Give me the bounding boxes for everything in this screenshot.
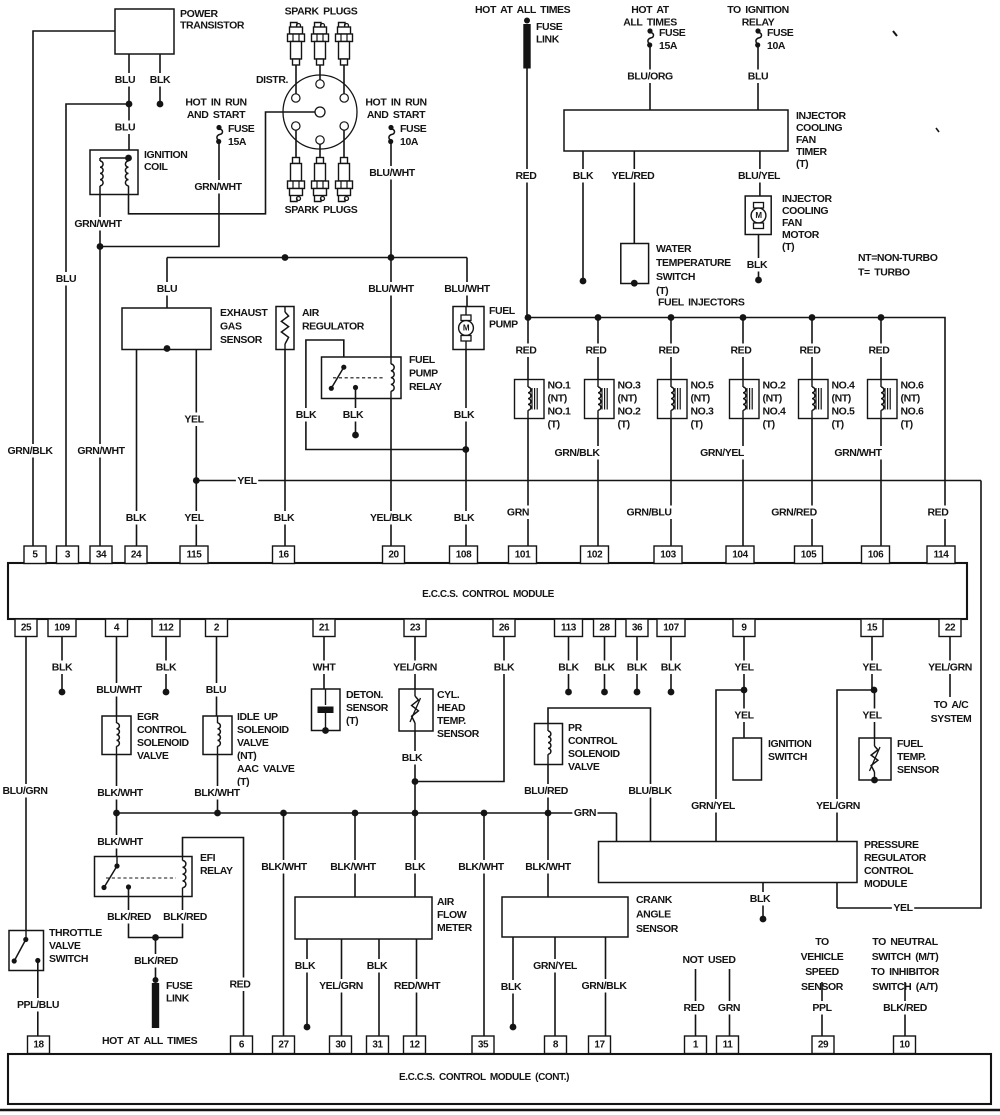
- svg-text:(NT): (NT): [832, 393, 851, 405]
- wire YEL branch to pressure regulator module (GRN/YEL): [716, 690, 744, 842]
- svg-text:RED: RED: [731, 345, 753, 357]
- svg-text:YEL: YEL: [862, 662, 882, 674]
- relay switch contact 2: [329, 386, 334, 391]
- value label YEL/GRN: [318, 979, 365, 993]
- svg-text:SPEED: SPEED: [805, 966, 839, 978]
- fuel pump relay box: [322, 357, 402, 399]
- svg-text:114: 114: [934, 549, 950, 560]
- value label WHT: [311, 661, 337, 675]
- value label GRN/WHT: [833, 446, 883, 460]
- junction dot bus: [481, 810, 488, 817]
- svg-text:11: 11: [723, 1039, 734, 1050]
- value label BLK: [342, 408, 365, 422]
- svg-text:BLU/WHT: BLU/WHT: [368, 283, 415, 295]
- svg-text:TO NEUTRAL: TO NEUTRAL: [872, 936, 938, 948]
- ignition coil box: [90, 150, 138, 195]
- value label PPL: [811, 1001, 833, 1015]
- svg-text:SWITCH (M/T): SWITCH (M/T): [872, 951, 939, 963]
- wire injector 3 feed (RED): [670, 318, 672, 380]
- svg-text:BLK: BLK: [52, 662, 73, 674]
- value label BLK: [660, 661, 683, 675]
- pin 35: [472, 1036, 494, 1054]
- EFI relay linkage dashed: [106, 877, 176, 879]
- ground dot: [668, 689, 675, 696]
- value label YEL/RED: [610, 169, 656, 183]
- fuel injector NO.6/NO.6: [868, 380, 898, 419]
- svg-text:PUMP: PUMP: [409, 368, 438, 380]
- wire module BLK ground: [762, 883, 764, 918]
- svg-text:SWITCH: SWITCH: [768, 751, 807, 763]
- value label GRN/YEL: [690, 799, 737, 813]
- junction dot bus: [412, 810, 419, 817]
- value label RED: [584, 344, 608, 358]
- svg-text:REGULATOR: REGULATOR: [302, 321, 365, 333]
- wire coil primary to pin 34 (GRN/WHT): [99, 195, 101, 547]
- wire to pin 10 (BLK/RED): [904, 982, 906, 1036]
- svg-text:AND START: AND START: [367, 109, 426, 121]
- svg-text:SPARK PLUGS: SPARK PLUGS: [285, 6, 358, 18]
- throttle switch arm: [14, 940, 26, 962]
- svg-text:BLK/WHT: BLK/WHT: [97, 836, 144, 848]
- distributor center post: [315, 107, 325, 117]
- ground dot fan motor: [755, 277, 762, 284]
- pin 26: [493, 619, 515, 637]
- svg-text:FUSE: FUSE: [536, 21, 563, 33]
- svg-text:(T): (T): [548, 419, 560, 431]
- pin 6: [231, 1036, 253, 1054]
- air regulator resistor: [284, 307, 286, 313]
- wire relay switch to BLK junction: [306, 340, 466, 450]
- value label BLK/RED: [133, 954, 179, 968]
- pin 11: [717, 1036, 739, 1054]
- svg-text:102: 102: [587, 549, 603, 560]
- svg-text:FUEL: FUEL: [897, 738, 924, 750]
- svg-text:E.C.C.S. CONTROL MODULE: E.C.C.S. CONTROL MODULE: [422, 589, 555, 600]
- svg-text:36: 36: [632, 622, 643, 633]
- spark plug bottom 2: [317, 158, 324, 164]
- svg-text:GAS: GAS: [220, 321, 242, 333]
- value label YEL: [861, 709, 883, 723]
- pin 25: [15, 619, 37, 637]
- svg-text:NT=NON-TURBO: NT=NON-TURBO: [858, 252, 938, 264]
- pin 109: [48, 619, 76, 637]
- svg-text:YEL: YEL: [184, 512, 204, 524]
- svg-text:NO.6: NO.6: [901, 406, 924, 418]
- value label BLK: [294, 959, 317, 973]
- svg-text:RED: RED: [516, 170, 538, 182]
- injector cooling fan timer box: [564, 110, 788, 151]
- value label RED: [798, 344, 822, 358]
- scan speck 2: [936, 128, 939, 132]
- value label BLK: [125, 511, 148, 525]
- svg-text:27: 27: [278, 1039, 289, 1050]
- EFI relay armature contact: [126, 884, 131, 889]
- svg-text:HOT AT ALL TIMES: HOT AT ALL TIMES: [102, 1035, 198, 1047]
- fuse link (bottom): [153, 977, 159, 983]
- E.C.C.S. control module box: [8, 563, 967, 619]
- svg-text:2: 2: [214, 622, 220, 633]
- svg-text:TEMPERATURE: TEMPERATURE: [656, 257, 731, 269]
- svg-text:NO.2: NO.2: [618, 406, 641, 418]
- wire injector 1 to module: [527, 419, 529, 547]
- junction dot bus: [280, 810, 287, 817]
- wire injector 4 feed (RED): [742, 318, 744, 380]
- pin 115: [180, 546, 208, 564]
- svg-text:RED: RED: [230, 979, 252, 991]
- pin 15: [861, 619, 883, 637]
- svg-text:FUSE: FUSE: [767, 27, 794, 39]
- pin 36: [626, 619, 648, 637]
- svg-text:TO A/C: TO A/C: [934, 699, 969, 711]
- svg-text:TO IGNITION: TO IGNITION: [727, 4, 789, 16]
- svg-text:NO.2: NO.2: [763, 380, 786, 392]
- value label GRN/WHT: [73, 217, 123, 231]
- svg-text:FAN: FAN: [782, 217, 802, 229]
- value label BLU/WHT: [367, 282, 415, 296]
- relay switch contact: [341, 365, 346, 370]
- svg-text:WATER: WATER: [656, 243, 692, 255]
- wire throttle switch to pin 18 (PPL/BLU): [37, 961, 39, 1037]
- relay switch arm: [331, 367, 344, 388]
- svg-text:30: 30: [335, 1039, 346, 1050]
- wire crank sensor to pin 8 (GRN/YEL): [554, 937, 556, 1036]
- EFI relay box: [95, 857, 193, 897]
- pin 24: [125, 546, 147, 564]
- svg-text:(T): (T): [782, 241, 794, 253]
- junction dot injector rail 1: [525, 314, 532, 321]
- junction dot bus: [545, 810, 552, 817]
- svg-text:(NT): (NT): [618, 393, 637, 405]
- svg-text:20: 20: [388, 549, 399, 560]
- svg-text:EFI: EFI: [200, 852, 216, 864]
- fuel injector NO.4/NO.5: [799, 380, 829, 419]
- fan motor symbol: [754, 203, 764, 209]
- value label RED: [514, 344, 538, 358]
- wire power transistor BLK output: [159, 54, 161, 104]
- value label YEL: [892, 901, 914, 915]
- svg-text:BLU: BLU: [748, 71, 768, 83]
- wire injector 6 to module: [880, 419, 882, 547]
- svg-text:BLU: BLU: [115, 122, 135, 134]
- value label BLU: [156, 282, 179, 296]
- svg-text:TEMP.: TEMP.: [437, 715, 466, 727]
- pin 23: [404, 619, 426, 637]
- svg-text:BLU: BLU: [157, 283, 177, 295]
- svg-text:BLU/WHT: BLU/WHT: [96, 684, 143, 696]
- value label YEL: [183, 511, 205, 525]
- svg-text:GRN: GRN: [718, 1002, 740, 1014]
- svg-text:AIR: AIR: [437, 896, 455, 908]
- value label BLK: [453, 408, 476, 422]
- svg-text:SOLENOID: SOLENOID: [137, 737, 189, 749]
- wire crank sensor BLK ground: [512, 937, 514, 1025]
- pin 5: [24, 546, 46, 564]
- wire bus to air flow meter (BLK/WHT): [354, 813, 356, 897]
- wire pin ground (BLK): [636, 637, 638, 690]
- svg-text:BLK: BLK: [501, 981, 522, 993]
- svg-text:109: 109: [54, 622, 70, 633]
- spark plug top 3: [339, 23, 346, 29]
- ground dot: [634, 689, 641, 696]
- svg-text:YEL: YEL: [893, 902, 913, 914]
- fuel temp thermistor: [874, 738, 876, 746]
- svg-text:10A: 10A: [767, 40, 786, 52]
- svg-text:INJECTOR: INJECTOR: [782, 193, 833, 205]
- junction dot injector rail 3: [668, 314, 675, 321]
- pin 112: [152, 619, 180, 637]
- svg-text:BLK: BLK: [156, 662, 177, 674]
- svg-text:BLK: BLK: [750, 893, 771, 905]
- svg-text:(T): (T): [796, 158, 808, 170]
- svg-text:TO: TO: [815, 936, 829, 948]
- svg-text:COOLING: COOLING: [796, 122, 842, 134]
- wire injector 2 feed (RED): [597, 318, 599, 380]
- svg-text:FUEL: FUEL: [409, 354, 436, 366]
- value label GRN/BLU: [625, 506, 673, 520]
- wire relay coil to pin 20 (YEL/BLK): [390, 399, 392, 547]
- pin 1: [685, 1036, 707, 1054]
- svg-text:RELAY: RELAY: [200, 865, 233, 877]
- wire injector 2 to module: [597, 419, 599, 547]
- value label BLK: [500, 980, 523, 994]
- value label GRN: [716, 1001, 741, 1015]
- svg-text:BLK: BLK: [454, 409, 475, 421]
- junction dot coil top: [125, 155, 132, 162]
- wire pin 2 to idle up valve (BLU): [216, 637, 218, 716]
- pin 103: [654, 546, 682, 564]
- svg-text:YEL/GRN: YEL/GRN: [816, 800, 860, 812]
- value label GRN/WHT: [76, 444, 126, 458]
- svg-text:COOLING: COOLING: [782, 205, 828, 217]
- svg-text:NO.5: NO.5: [691, 380, 714, 392]
- value label BLK: [749, 892, 772, 906]
- wire pin 4 to EGR valve (BLU/WHT): [116, 637, 118, 716]
- svg-text:BLK: BLK: [627, 662, 648, 674]
- svg-text:34: 34: [96, 549, 107, 560]
- value label RED/WHT: [392, 979, 441, 993]
- svg-text:NOT USED: NOT USED: [682, 954, 736, 966]
- svg-text:AND START: AND START: [187, 109, 246, 121]
- wire pin 9 (YEL) to ignition switch: [743, 637, 745, 738]
- svg-text:HOT AT: HOT AT: [631, 4, 669, 16]
- value label BLK/WHT: [457, 860, 505, 874]
- svg-text:RED: RED: [659, 345, 681, 357]
- junction dot BLK/fuel pump: [462, 446, 469, 453]
- value label YEL: [733, 709, 755, 723]
- fuel temp sensor box: [859, 738, 891, 780]
- svg-text:15: 15: [867, 622, 878, 633]
- wire power transistor to pin 5 (GRN/BLK): [33, 31, 115, 546]
- svg-text:BLU/BLK: BLU/BLK: [628, 785, 672, 797]
- EFI relay coil: [182, 857, 184, 861]
- pin 27: [273, 1036, 295, 1054]
- svg-text:SOLENOID: SOLENOID: [568, 748, 620, 760]
- svg-text:BLK: BLK: [747, 259, 768, 271]
- svg-text:BLU/GRN: BLU/GRN: [2, 785, 47, 797]
- svg-text:29: 29: [818, 1039, 829, 1050]
- svg-text:M: M: [755, 211, 762, 220]
- svg-text:BLU/ORG: BLU/ORG: [627, 71, 673, 83]
- svg-text:GRN/BLK: GRN/BLK: [7, 445, 53, 457]
- ground dot module BLK: [760, 916, 767, 923]
- svg-text:SENSOR: SENSOR: [437, 728, 480, 740]
- ground dot crank BLK: [510, 1024, 517, 1031]
- svg-text:TO INHIBITOR: TO INHIBITOR: [871, 966, 940, 978]
- pin 113: [555, 619, 583, 637]
- value label YEL: [733, 661, 755, 675]
- svg-text:INJECTOR: INJECTOR: [796, 110, 847, 122]
- wire fan motor BLK: [758, 235, 760, 279]
- value label RED: [867, 344, 891, 358]
- svg-text:106: 106: [868, 549, 884, 560]
- value label GRN: [572, 806, 597, 820]
- svg-text:22: 22: [945, 622, 956, 633]
- pin 107: [657, 619, 685, 637]
- svg-text:113: 113: [561, 622, 577, 633]
- svg-text:31: 31: [372, 1039, 383, 1050]
- svg-text:BLK: BLK: [594, 662, 615, 674]
- pin 2: [206, 619, 228, 637]
- distributor body: [283, 75, 357, 149]
- svg-text:BLU/YEL: BLU/YEL: [738, 170, 781, 182]
- svg-text:MOTOR: MOTOR: [782, 229, 820, 241]
- svg-text:RED: RED: [800, 345, 822, 357]
- spark plug bottom 3: [341, 158, 348, 164]
- svg-text:BLU: BLU: [115, 74, 135, 86]
- fuel pump box: [453, 307, 484, 350]
- svg-text:BLK/RED: BLK/RED: [883, 1002, 928, 1014]
- svg-text:115: 115: [187, 549, 203, 560]
- svg-text:1: 1: [693, 1039, 699, 1050]
- value label BLK: [295, 408, 318, 422]
- svg-text:BLK: BLK: [367, 960, 388, 972]
- svg-text:(T): (T): [346, 715, 358, 727]
- value label RED: [228, 978, 252, 992]
- svg-text:PPL: PPL: [812, 1002, 832, 1014]
- svg-text:M: M: [463, 324, 470, 333]
- svg-text:4: 4: [114, 622, 120, 633]
- svg-text:CRANK: CRANK: [636, 894, 673, 906]
- air regulator box: [276, 307, 294, 350]
- value label YEL/GRN: [927, 661, 974, 675]
- wire AFM to pin 31 (BLK): [378, 939, 380, 1036]
- fuse 15A symbol: [216, 125, 221, 130]
- svg-text:BLK: BLK: [296, 409, 317, 421]
- svg-text:YEL/GRN: YEL/GRN: [393, 662, 437, 674]
- pin 17: [589, 1036, 611, 1054]
- wire YEL rail right side down: [837, 481, 981, 909]
- svg-text:LINK: LINK: [536, 34, 560, 46]
- wire timer to water temp switch (YEL/RED): [633, 151, 635, 244]
- pin 3: [57, 546, 79, 564]
- water temp switch dot: [631, 280, 638, 287]
- wire BLK/WHT bus: [117, 812, 617, 814]
- svg-text:HOT IN RUN: HOT IN RUN: [185, 97, 246, 109]
- wire EFI relay coil feed (RED) to pin 6: [183, 838, 244, 1037]
- svg-text:CONTROL: CONTROL: [568, 735, 618, 747]
- svg-text:GRN/WHT: GRN/WHT: [194, 181, 242, 193]
- svg-text:AAC VALVE: AAC VALVE: [237, 763, 295, 775]
- wire coil top tie: [100, 157, 129, 159]
- svg-text:FLOW: FLOW: [437, 909, 467, 921]
- svg-text:(NT): (NT): [691, 393, 710, 405]
- svg-text:(NT): (NT): [901, 393, 920, 405]
- value label YEL: [183, 413, 205, 427]
- value label GRN/WHT: [193, 180, 243, 194]
- svg-text:BLU/WHT: BLU/WHT: [369, 167, 416, 179]
- value label BLU: [114, 121, 137, 135]
- fuel injector NO.5/NO.3: [658, 380, 688, 419]
- svg-text:GRN/BLK: GRN/BLK: [554, 447, 600, 459]
- value label BLK/WHT: [260, 860, 308, 874]
- junction dot YEL pin9: [741, 687, 748, 694]
- svg-text:EXHAUST: EXHAUST: [220, 307, 268, 319]
- wire EFI relay BLK/RED left: [129, 887, 183, 938]
- value label GRN/YEL: [699, 446, 746, 460]
- svg-text:GRN/YEL: GRN/YEL: [533, 960, 578, 972]
- svg-text:HEAD: HEAD: [437, 702, 466, 714]
- value label YEL: [861, 661, 883, 675]
- fuse link (top): [524, 18, 530, 24]
- svg-text:SENSOR: SENSOR: [636, 923, 679, 935]
- throttle valve switch box: [9, 931, 44, 971]
- wire plug3 to distributor: [343, 65, 345, 94]
- distributor post: [340, 94, 348, 102]
- svg-text:FUSE: FUSE: [166, 980, 193, 992]
- svg-text:12: 12: [409, 1039, 420, 1050]
- wire pin 22 (YEL/GRN) to A/C system: [949, 637, 951, 697]
- wire pin 21 to deton sensor (WHT): [323, 637, 325, 689]
- svg-text:YEL/BLK: YEL/BLK: [370, 512, 413, 524]
- wire BLK/RED to fuse link: [155, 938, 157, 980]
- wire fuse 15A to ignition coil (GRN/WHT): [100, 143, 219, 247]
- value label BLK: [366, 959, 389, 973]
- svg-text:GRN/BLK: GRN/BLK: [581, 980, 627, 992]
- distributor post: [316, 136, 324, 144]
- svg-text:COIL: COIL: [144, 161, 168, 173]
- wire injector 5 feed (RED): [811, 318, 813, 380]
- distributor post: [316, 80, 324, 88]
- junction dot injector rail 6: [878, 314, 885, 321]
- svg-text:FUEL: FUEL: [489, 305, 516, 317]
- pressure regulator control module box: [599, 842, 858, 883]
- pin 101: [509, 546, 537, 564]
- ignition coil primary winding: [99, 158, 101, 161]
- wire YEL branch to pressure regulator module (YEL/GRN): [837, 690, 874, 842]
- svg-text:YEL/GRN: YEL/GRN: [928, 662, 972, 674]
- value label YEL: [236, 474, 258, 488]
- value label BLK: [557, 661, 580, 675]
- value label GRN: [505, 506, 530, 520]
- pin 31: [367, 1036, 389, 1054]
- value label BLK: [626, 661, 649, 675]
- value label BLU: [114, 73, 137, 87]
- svg-text:BLK: BLK: [573, 170, 594, 182]
- value label BLK/WHT: [193, 786, 241, 800]
- value label BLU/WHT: [95, 683, 143, 697]
- exhaust gas sensor box: [122, 308, 211, 350]
- svg-text:SPARK PLUGS: SPARK PLUGS: [285, 204, 358, 216]
- pin 20: [383, 546, 405, 564]
- svg-text:8: 8: [553, 1039, 559, 1050]
- svg-text:25: 25: [21, 622, 32, 633]
- junction dot GRN/WHT: [97, 243, 104, 250]
- distributor post: [292, 94, 300, 102]
- idle up valve coil: [217, 716, 219, 723]
- wire rail to exhaust gas sensor (BLU): [166, 258, 168, 309]
- wire AFM BLK ground: [306, 939, 308, 1025]
- detonation sensor box: [312, 689, 341, 731]
